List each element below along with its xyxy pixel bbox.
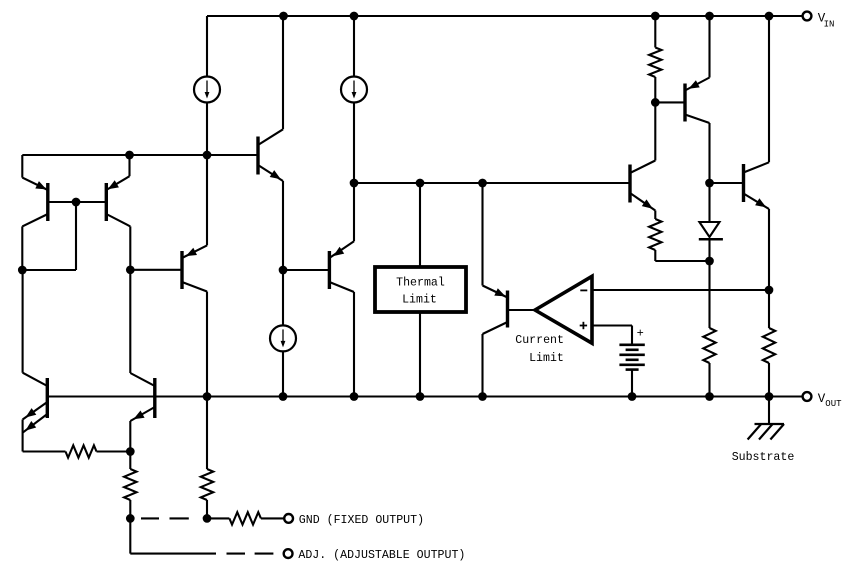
junction top rail I2 [350, 12, 359, 21]
Q9 collector wire [744, 162, 770, 172]
current source I1 [194, 77, 220, 103]
junction mid rail I2 [350, 179, 359, 188]
terminal GND [284, 514, 293, 523]
wire Q4 collector up to node D [654, 102, 656, 160]
Q5 collector wire [182, 282, 207, 292]
Q2 collector wire [106, 214, 130, 226]
wire Q10 collector up to node A [22, 270, 24, 373]
svg-text:Current: Current [515, 334, 564, 347]
wire top rail to current source I2 [353, 16, 355, 77]
svg-text:Thermal: Thermal [396, 277, 445, 290]
resistor R1 top wire [654, 16, 656, 48]
Q11 emitter wire [130, 407, 155, 421]
node E junction [705, 179, 714, 188]
wire node H to R6a [129, 452, 131, 470]
battery B1 plate long 2 [619, 353, 644, 356]
wire GND dashed segment 2 [170, 517, 189, 519]
Q3 emitter arrow [270, 170, 281, 179]
resistor R1 [649, 48, 661, 78]
diode D1 anode wire [708, 183, 710, 222]
svg-text:Substrate: Substrate [732, 451, 795, 464]
Q6 emitter wire [329, 241, 354, 258]
Q3 emitter wire [258, 165, 283, 181]
transistor Q6 (PNP) bar [328, 251, 331, 289]
wire Q3 emitter down [282, 181, 284, 270]
junction top rail R1 [651, 12, 660, 21]
Q11 collector wire [130, 373, 155, 386]
diode D1 cathode bar [699, 238, 723, 241]
diode D1 cathode wire [708, 239, 710, 261]
resistor R5 [66, 445, 97, 457]
wire V_OUT output rail [47, 395, 807, 397]
resistor R2 [649, 219, 661, 250]
current source I3 [270, 325, 296, 351]
resistor R3 [703, 328, 715, 363]
svg-text:GND (FIXED OUTPUT): GND (FIXED OUTPUT) [299, 514, 424, 527]
Q2 emitter wire [106, 176, 129, 190]
junction rail Q7 [478, 392, 487, 401]
R3 bottom wire [708, 363, 710, 397]
wire Q10 emitters join [22, 420, 24, 452]
battery B1 plate short 3 [626, 368, 639, 371]
current source I2 [341, 77, 367, 103]
wire mid rail down to Q7 emitter [481, 183, 483, 286]
Q9 emitter wire [744, 194, 770, 210]
wire U1 plus input [592, 324, 632, 326]
comparator U1 current limit amp [535, 276, 592, 343]
transistor Q1 (PNP mirror left) bar [46, 183, 49, 221]
Q2 emitter drop wire [128, 155, 130, 176]
Q8 emitter drop wire [708, 16, 710, 78]
Q1 collector wire [22, 214, 48, 226]
resistor R6a [124, 469, 136, 500]
Q4 collector wire [630, 161, 655, 174]
Q9 emitter arrow [755, 198, 766, 207]
junction node bias/I1 [203, 151, 212, 160]
Q8 emitter wire [685, 78, 710, 91]
Q3 collector wire [258, 129, 283, 145]
Q10 emitter1 wire [23, 402, 48, 420]
svg-text:ADJ. (ADJUSTABLE OUTPUT): ADJ. (ADJUSTABLE OUTPUT) [298, 549, 465, 562]
junction rail R3 [705, 392, 714, 401]
wire drop from top rail to current source I1 [206, 16, 208, 77]
Q5 emitter wire [182, 245, 207, 258]
battery reference B1 plate long 1 [619, 343, 644, 346]
wire thermal limit to output rail [419, 312, 421, 397]
wire I3 to output rail [282, 351, 284, 396]
wire I2 down through mid rail to Q6 emitter [353, 103, 355, 242]
transistor Q8 (PNP) bar [683, 84, 686, 122]
node F junction [705, 257, 714, 266]
junction mid rail thermal [416, 179, 425, 188]
svg-text:+: + [637, 327, 644, 341]
transistor Q9 (NPN output) bar [742, 164, 745, 202]
Q9 base wire [710, 182, 744, 184]
Q7 collector wire [483, 322, 508, 334]
junction rail Q5 collector / R6 [203, 392, 212, 401]
wire node C to current source I3 [282, 270, 284, 325]
R6a bottom wire [129, 500, 131, 518]
Q10 emitter2 arrow [25, 421, 36, 431]
resistor R6b [201, 469, 213, 500]
wire battery to output rail [631, 370, 633, 397]
transistor Q3 (NPN input) bar [256, 137, 259, 175]
R1 bottom wire [654, 77, 656, 102]
wire R2 to node F [655, 260, 709, 262]
Q6 collector wire [329, 282, 354, 292]
node C junction [279, 266, 288, 275]
transistor Q7 (PNP current limit) bar [506, 291, 509, 328]
R4 bottom wire [768, 363, 770, 397]
Q8 emitter arrow [689, 80, 700, 89]
node H junction [126, 447, 135, 456]
Q7 emitter arrow [494, 288, 505, 296]
wire plus input down to battery [631, 326, 633, 345]
wire ADJ dashed segment 1 [227, 553, 246, 555]
diode D1 [699, 222, 719, 237]
wire Q5 collector to output rail [206, 292, 208, 397]
svg-text:Limit: Limit [529, 352, 564, 365]
Q6 emitter arrow [333, 247, 344, 256]
Q4 emitter arrow [642, 199, 653, 208]
Q2 emitter arrow [108, 180, 119, 189]
wire node F to R3 [708, 261, 710, 328]
Q10 emitter1 arrow [25, 408, 36, 417]
Q7 base wire [508, 309, 536, 311]
node D junction R1/Q8 base/Q4 collector [651, 98, 660, 107]
wire mid drive rail y183 [354, 182, 630, 184]
Q5 base wire [130, 269, 182, 271]
Q8 base wire [655, 101, 685, 103]
transistor Q11 (NPN) bar [153, 378, 156, 418]
thermal limit block U2 [375, 267, 466, 312]
Q10 emitter2 wire [23, 414, 48, 433]
wire U1 minus input to sense node [592, 289, 769, 291]
svg-text:IN: IN [824, 19, 835, 29]
junction rail thermal [416, 392, 425, 401]
resistor R4 [763, 328, 775, 363]
wire base tie down [75, 202, 77, 270]
wire I1 output down to Q5 emitter node [206, 103, 208, 246]
junction rail R4 [765, 392, 774, 401]
junction rail battery [628, 392, 637, 401]
junction top rail Q9 [765, 12, 774, 21]
wire GND solid to R7 [207, 517, 229, 519]
Q1 emitter wire [22, 178, 48, 190]
node J junction GND net [126, 514, 135, 523]
R6b bottom wire [206, 500, 208, 518]
wire ADJ dashed segment 2 [255, 553, 274, 555]
terminal V_IN [803, 12, 812, 21]
transistor Q5 (PNP) bar [180, 251, 183, 289]
resistor R7 [229, 512, 261, 524]
wire ADJ solid segment [130, 553, 216, 555]
wire Q8 collector down [708, 123, 710, 183]
junction top rail Q8 emitter [705, 12, 714, 21]
transistor Q4 (NPN driver) bar [628, 165, 631, 203]
transistor Q10 (dual emitter NPN) bar [46, 378, 49, 418]
transistor Q2 (PNP mirror right) bar [105, 183, 108, 221]
wire bias node rail y155 [22, 154, 207, 156]
junction rail Q6 [350, 392, 359, 401]
node K junction GND net [203, 514, 212, 523]
wire Q2 collector down [129, 226, 131, 269]
Q4 emitter wire [630, 193, 655, 211]
U1 minus sign [580, 289, 587, 291]
R2 bottom wire [654, 250, 656, 261]
wire Q9 collector to top rail [768, 16, 770, 162]
wire Q3 collector to top rail [282, 16, 284, 129]
node G junction sense [765, 286, 774, 295]
wire Q9 emitter to sense node [768, 209, 770, 290]
Q5 emitter arrow [186, 248, 197, 256]
battery B1 plate short 2 [626, 358, 639, 361]
wire node G to R4 [768, 290, 770, 328]
battery B1 plate long 3 [619, 363, 644, 366]
Q6 base wire [283, 269, 329, 271]
junction top rail Q3 [279, 12, 288, 21]
junction node Q2 emitter tap [125, 151, 134, 160]
Q3 base wire [207, 154, 258, 156]
wire rail to R6b [206, 397, 208, 470]
U1 plus sign [580, 325, 587, 327]
wire Q4 emitter to R2 [654, 211, 656, 220]
node A junction [18, 266, 27, 275]
Q1 emitter arrow [35, 181, 46, 189]
svg-text:OUT: OUT [825, 399, 842, 409]
wire node J down to ADJ line [129, 518, 131, 553]
Q10 collector wire [23, 373, 48, 386]
wire rail to substrate ground [768, 397, 770, 425]
wire Q11 collector up to node B [129, 270, 131, 373]
wire emitter to R5 [23, 450, 66, 452]
wire left corner drop [21, 155, 23, 178]
battery B1 plate short 1 [626, 348, 639, 351]
wire Q11 emitter to node H [129, 421, 131, 452]
wire Q1-Q2 base tie [48, 201, 107, 203]
terminal V_OUT [803, 392, 812, 401]
R5 right wire [97, 450, 131, 452]
svg-text:Limit: Limit [402, 293, 437, 306]
wire Q7 collector to output rail [481, 334, 483, 397]
wire Q1 collector down [21, 226, 23, 270]
junction mid rail current limit [478, 179, 487, 188]
wire GND dashed segment 1 [141, 517, 159, 519]
junction rail I3 [279, 392, 288, 401]
wire R7 to GND terminal [261, 517, 285, 519]
junction base tie [72, 198, 81, 207]
wire mirror diode connect [22, 269, 76, 271]
Q11 emitter arrow [133, 411, 144, 420]
wire Q6 collector to output rail [353, 292, 355, 397]
wire top V_IN rail [207, 15, 807, 17]
substrate ground symbol [755, 423, 785, 425]
wire mid rail to thermal limit box [419, 183, 421, 267]
terminal ADJ [284, 549, 293, 558]
Q8 collector wire [685, 115, 710, 124]
Q7 emitter wire [483, 286, 508, 298]
node B junction [126, 265, 135, 274]
